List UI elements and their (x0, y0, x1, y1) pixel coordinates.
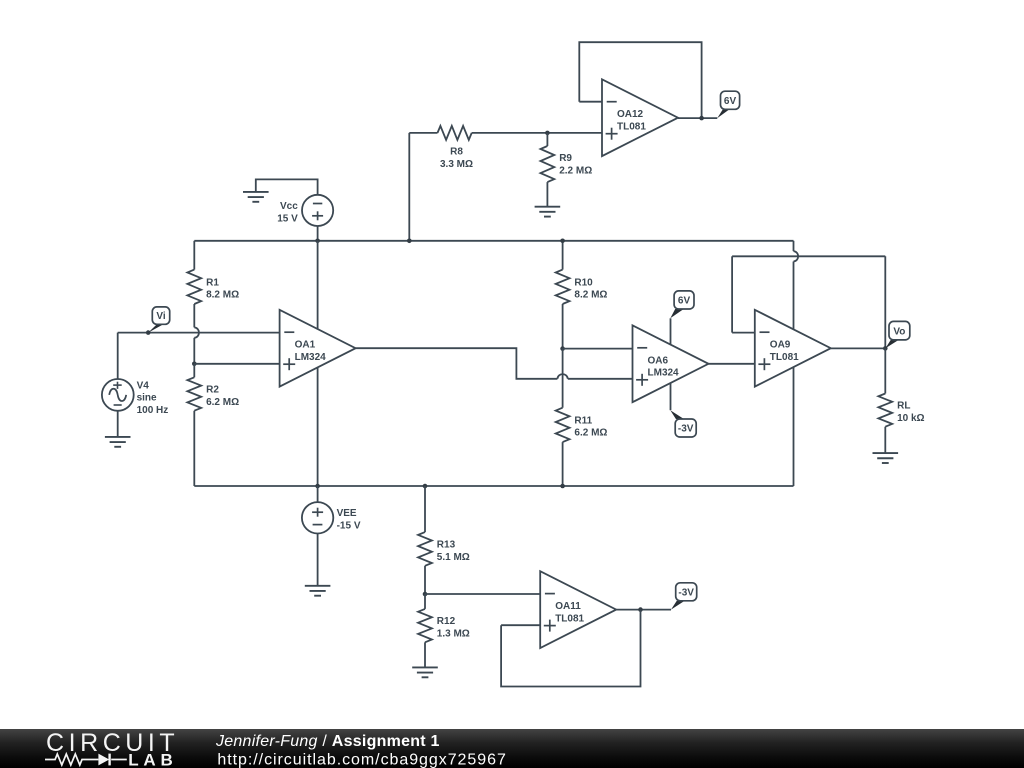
svg-text:Vo: Vo (893, 326, 905, 337)
wire VEE bottom lead (317, 534, 319, 586)
wire OA6 - input (563, 348, 633, 350)
svg-text:R10: R10 (574, 277, 593, 288)
svg-text:http://circuitlab.com/cba9ggx7: http://circuitlab.com/cba9ggx725967 (217, 751, 506, 768)
svg-text:R1: R1 (206, 277, 219, 288)
ground (Vcc) (243, 191, 269, 193)
flag Vi tail (148, 324, 163, 332)
wire OA9 - input (732, 332, 755, 334)
op-amp OA12 TL081 body (602, 79, 678, 156)
ground (VEE) (305, 585, 331, 587)
svg-text:6.2 MΩ: 6.2 MΩ (574, 428, 607, 439)
svg-text:8.2 MΩ: 8.2 MΩ (574, 290, 607, 301)
node R10 on top bus (560, 239, 565, 244)
wire R1 top lead (193, 241, 195, 270)
svg-text:1.3 MΩ: 1.3 MΩ (437, 629, 470, 640)
svg-text:2.2 MΩ: 2.2 MΩ (559, 166, 592, 177)
resistor R11 body (556, 408, 570, 442)
CircuitLab logo resistor-diode glyph (45, 754, 127, 765)
flag Vo tail (885, 340, 898, 349)
flag 6V tail (OA12) (717, 109, 729, 118)
wire OA6 output to OA9 + (709, 363, 755, 365)
voltage source V4 sine 100 Hz (102, 379, 134, 411)
voltage source VEE -15 V (302, 502, 333, 533)
svg-text:OA9: OA9 (770, 340, 791, 351)
svg-text:OA1: OA1 (295, 340, 316, 351)
node R13 on bottom bus (423, 484, 428, 489)
wire R13 top lead (424, 486, 426, 532)
wire R8 right lead to OA12 + (472, 132, 602, 134)
ground (R12) (412, 666, 438, 668)
flag -3V tail (OA6 V-) (670, 410, 684, 419)
net flag Vi (152, 307, 169, 324)
node Vi tap junction (146, 330, 151, 335)
svg-text:LM324: LM324 (648, 368, 680, 379)
svg-text:Vcc: Vcc (280, 201, 298, 212)
svg-text:-15 V: -15 V (337, 521, 361, 532)
net flag 6V (OA6 V+) (674, 291, 694, 309)
ground (RL) (873, 452, 899, 454)
svg-text:R13: R13 (437, 539, 456, 550)
node OA12 output junction (699, 116, 704, 121)
node VEE on bottom bus (315, 484, 320, 489)
svg-text:OA6: OA6 (648, 355, 669, 366)
wire R10 bottom lead (562, 304, 564, 349)
svg-text:100 Hz: 100 Hz (137, 405, 169, 416)
node R8 branch on top bus (407, 239, 412, 244)
wire OA11 output (616, 609, 671, 611)
svg-text:R2: R2 (206, 385, 219, 396)
wire OA9 feedback up (731, 256, 733, 332)
wire hop R1R2 over Vi wire (194, 327, 199, 337)
wire R2 top lead (193, 364, 195, 378)
flag 6V tail (OA6 V+) (670, 309, 683, 318)
resistor RL body (878, 394, 892, 427)
wire VEE top lead (317, 486, 319, 502)
svg-text:-3V: -3V (678, 424, 694, 435)
svg-text:5.1 MΩ: 5.1 MΩ (437, 552, 470, 563)
svg-text:V4: V4 (137, 380, 150, 391)
svg-text:R8: R8 (450, 147, 463, 158)
wire Vcc to top bus (317, 226, 319, 241)
wire R8 branch vertical (408, 133, 410, 241)
wire RL top lead (884, 348, 886, 393)
svg-text:LAB: LAB (128, 750, 177, 768)
wire OA11 + input (501, 624, 540, 626)
resistor R12 body (418, 609, 432, 642)
net flag -3V (OA6 V-) (675, 419, 696, 437)
footer black bar (0, 729, 1024, 768)
wire OA9 feedback down to output (884, 256, 886, 348)
svg-text:6V: 6V (678, 296, 691, 307)
wire R11 top lead (562, 349, 564, 408)
wire R2 bottom lead (193, 411, 195, 486)
svg-text:6.2 MΩ: 6.2 MΩ (206, 397, 239, 408)
svg-text:sine: sine (137, 393, 157, 404)
wire OA1 output step (356, 348, 558, 379)
node R8-R9-OA12 junction (545, 131, 550, 136)
svg-text:TL081: TL081 (617, 122, 646, 133)
wire V4 bottom lead (117, 411, 119, 437)
node R11 on bottom bus (560, 484, 565, 489)
wire OA1 + input (194, 363, 279, 365)
net flag 6V (OA12 output) (721, 91, 740, 109)
wire Vcc ground to source (256, 179, 318, 195)
wire R9 bottom lead (546, 182, 548, 207)
resistor R8 body (438, 126, 472, 140)
wire V4 top lead (117, 333, 119, 379)
resistor R10 body (556, 270, 570, 304)
wire R13 bottom lead (424, 566, 426, 594)
wire Vi net (V4 to OA1 -) (118, 332, 280, 334)
wire R10 top lead (562, 241, 564, 270)
node OA9 output junction (883, 346, 888, 351)
ground (V4) (105, 436, 131, 438)
svg-text:RL: RL (897, 401, 910, 412)
wire OA6 power pins (670, 318, 672, 410)
svg-text:10 kΩ: 10 kΩ (897, 413, 924, 424)
flag -3V tail (OA11) (671, 601, 685, 610)
wire OA12 feedback loop (579, 42, 701, 118)
svg-text:OA12: OA12 (617, 109, 644, 120)
wire R12 bottom lead (424, 642, 426, 667)
wire R1R2 to node (193, 338, 195, 364)
svg-text:R12: R12 (437, 616, 456, 627)
op-amp OA1 LM324 body (280, 310, 356, 387)
resistor R2 body (187, 377, 201, 410)
wire R12 top lead (424, 594, 426, 609)
wire OA11 feedback loop (501, 610, 640, 687)
svg-text:R9: R9 (559, 153, 572, 164)
svg-text:Vi: Vi (156, 311, 165, 322)
svg-text:3.3 MΩ: 3.3 MΩ (440, 159, 473, 170)
wire OA1 power rail (V+ to V-) (317, 241, 319, 486)
wire R8 left lead (409, 132, 437, 134)
node Vcc-bus junction (315, 239, 320, 244)
wire R11 bottom lead (562, 442, 564, 486)
wire OA9 output (831, 347, 886, 349)
svg-text:TL081: TL081 (770, 352, 799, 363)
svg-text:6V: 6V (724, 96, 737, 107)
node R10-R11-OA6 junction (560, 346, 565, 351)
net flag Vo (889, 321, 910, 340)
svg-text:15 V: 15 V (277, 214, 298, 225)
wire bottom supply bus (VEE rail) (194, 485, 793, 487)
wire R1 bottom lead (193, 304, 195, 327)
wire OA9 feedback top left (732, 255, 885, 257)
node R13-R12-OA11 junction (423, 592, 428, 597)
resistor R1 body (187, 270, 201, 304)
resistor R9 body (541, 146, 555, 182)
node R1-R2-OA1+ junction (192, 362, 197, 367)
svg-text:OA11: OA11 (555, 601, 581, 612)
wire RL bottom lead (884, 427, 886, 453)
voltage source Vcc 15 V (302, 195, 333, 226)
wire hop OA9 power over feedback (794, 251, 799, 261)
svg-text:TL081: TL081 (555, 614, 584, 625)
op-amp OA9 TL081 body (755, 310, 831, 387)
resistor R13 body (418, 532, 432, 566)
net flag -3V (OA11 output) (676, 583, 697, 601)
wire OA11 - input (425, 593, 540, 595)
svg-text:R11: R11 (574, 415, 592, 426)
svg-text:LM324: LM324 (295, 352, 327, 363)
ground (R9) (535, 206, 561, 208)
wire OA1 output to OA6 + (568, 378, 633, 380)
wire OA12 - input (579, 101, 602, 103)
op-amp OA6 LM324 body (633, 325, 709, 402)
wire hop OA1out over R10R11 (557, 374, 567, 379)
svg-text:8.2 MΩ: 8.2 MΩ (206, 290, 239, 301)
svg-text:VEE: VEE (337, 508, 357, 519)
wire R9 top lead (546, 133, 548, 146)
wire OA9 power rail (793, 241, 795, 251)
op-amp OA11 TL081 body (540, 571, 616, 648)
wire OA12 output (678, 117, 717, 119)
svg-text:Jennifer-Fung / Assignment 1: Jennifer-Fung / Assignment 1 (215, 733, 440, 750)
svg-text:-3V: -3V (678, 587, 694, 598)
node OA11 output junction (638, 607, 643, 612)
wire top supply bus (Vcc rail) (194, 240, 793, 242)
